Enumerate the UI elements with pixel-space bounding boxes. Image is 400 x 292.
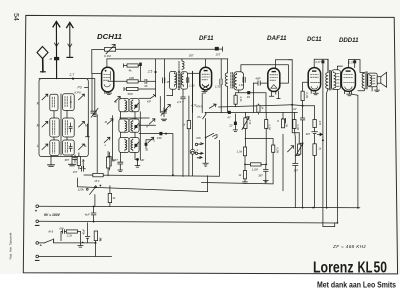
band switch L left xyxy=(37,144,48,150)
svg-text:2,5 T: 2,5 T xyxy=(176,100,185,104)
wire DAF11 anode loop xyxy=(275,60,292,68)
capacitor 430 xyxy=(155,132,173,175)
capacitor 150 b xyxy=(187,78,195,88)
resistor 0,1M right xyxy=(293,112,300,137)
resistor 2,2k xyxy=(66,230,81,238)
svg-text:0,1T: 0,1T xyxy=(348,60,354,64)
wire DCH11 anode to bus xyxy=(107,59,181,67)
capacitor 150 a xyxy=(163,78,172,84)
earth arrow xyxy=(67,23,73,58)
svg-text:M: M xyxy=(37,124,40,128)
battery terminal plus xyxy=(35,205,39,214)
coil L right xyxy=(63,140,75,155)
tube DC11 xyxy=(308,68,320,91)
wire screen dropper xyxy=(155,59,157,97)
band switch K left xyxy=(37,94,48,105)
svg-text:50: 50 xyxy=(374,260,388,277)
svg-text:L: L xyxy=(85,144,87,148)
svg-text:387: 387 xyxy=(65,158,70,162)
battery terminal minus xyxy=(35,220,39,225)
wire pot to grid xyxy=(92,50,102,74)
coil K right (PU) xyxy=(63,94,75,111)
oscillator coil K left xyxy=(115,99,129,112)
svg-text:AV: AV xyxy=(292,107,297,111)
wire det column xyxy=(294,138,296,163)
wire IF1 secondary to DF11 grid xyxy=(188,72,200,74)
resistor 1,5k xyxy=(237,147,247,156)
ground right coil xyxy=(69,155,76,166)
trimmer capacitor antenna xyxy=(88,74,98,174)
svg-text:2,2k: 2,2k xyxy=(66,233,73,237)
output transformer xyxy=(362,72,377,89)
wire coil commons xyxy=(54,94,67,155)
resistor 50k cathode xyxy=(106,152,109,176)
switch osc M left xyxy=(105,119,113,124)
switch wave change xyxy=(165,105,171,111)
grid capacitor 0,1T DDD11 xyxy=(348,60,364,73)
svg-text:DCH11: DCH11 xyxy=(97,32,122,41)
svg-text:40μF: 40μF xyxy=(82,228,86,234)
oscillator coil L right xyxy=(129,138,139,153)
svg-text:0,1M: 0,1M xyxy=(296,124,300,131)
LT minus bus xyxy=(39,221,338,223)
ground PU xyxy=(203,158,208,166)
coil L left xyxy=(50,140,59,156)
tube DC11 pins xyxy=(311,91,318,95)
battery terminal filament minus xyxy=(35,255,39,260)
resistor 50k screen xyxy=(234,93,243,107)
diode detector xyxy=(318,132,324,227)
filament minus bus xyxy=(39,255,112,257)
svg-text:Met dank aan Leo Smits: Met dank aan Leo Smits xyxy=(317,281,396,290)
tube DDD11 xyxy=(341,68,355,92)
svg-text:DAF11: DAF11 xyxy=(267,36,287,42)
svg-text:2,5: 2,5 xyxy=(147,70,153,74)
antenna A xyxy=(37,47,48,72)
capacitor 0W xyxy=(59,226,66,240)
svg-text:1,50: 1,50 xyxy=(215,85,221,89)
oscillator transformer DC11 xyxy=(326,70,341,90)
svg-text:0,3M: 0,3M xyxy=(268,124,272,131)
svg-text:30: 30 xyxy=(145,148,149,152)
contact arrow a xyxy=(198,143,203,145)
svg-text:40P: 40P xyxy=(255,77,260,81)
svg-text:KW: KW xyxy=(196,136,201,140)
band switch M left xyxy=(37,121,48,127)
svg-text:120k: 120k xyxy=(78,188,85,192)
tube DDD11 pins xyxy=(344,91,352,95)
wire DC11 grid left xyxy=(303,82,309,91)
capacitor 15T in AVC line xyxy=(215,47,223,57)
switch Af 6 xyxy=(39,229,96,243)
svg-text:L: L xyxy=(37,144,39,148)
band switch K right with PU labels xyxy=(75,86,89,100)
capacitor 150 DF11 anode xyxy=(215,79,222,89)
capacitor 4uF xyxy=(85,207,96,222)
grid capacitor 0,1T DC11 xyxy=(314,59,328,131)
tube DCH11 xyxy=(102,67,114,92)
aerial arrow xyxy=(53,22,60,79)
wire screen bus xyxy=(205,111,297,113)
ground left coil xyxy=(48,156,55,167)
trimmer capacitor padder xyxy=(161,108,167,121)
svg-text:Lorenz: Lorenz xyxy=(313,260,354,277)
capacitor 30 xyxy=(144,79,155,88)
resistor 1k screen feed xyxy=(257,104,264,114)
battery terminal filament plus xyxy=(36,242,43,248)
svg-text:387: 387 xyxy=(294,168,299,172)
resistor 1,2M xyxy=(244,163,266,172)
resistor 500 xyxy=(124,87,156,96)
resistor 0,5M AF riser xyxy=(245,139,279,155)
potentiometer 120k volume xyxy=(78,185,102,207)
capacitor MD at IF2 foot xyxy=(236,90,266,112)
oscillator coil K right xyxy=(129,99,139,112)
node MF xyxy=(135,158,144,167)
wire IF1 primary foot xyxy=(167,89,173,95)
resistor 100 xyxy=(127,76,144,83)
potentiometer regen xyxy=(295,133,303,156)
tube DCH11 cathode ground xyxy=(105,92,112,95)
svg-text:0,1M: 0,1M xyxy=(305,92,309,99)
capacitor 47 xyxy=(227,111,231,120)
svg-text:30: 30 xyxy=(144,84,148,88)
switch osc K left xyxy=(115,97,121,102)
potentiometer 4,7k volume xyxy=(242,112,252,147)
wire DF11 anode down xyxy=(220,59,222,113)
contact arrow b xyxy=(197,152,203,158)
wire DF11 anode top xyxy=(205,59,207,67)
resistor 0,1M osc grid xyxy=(301,91,309,118)
svg-text:15 k: 15 k xyxy=(94,179,100,183)
svg-text:Rad. Hist. Tijdschrift: Rad. Hist. Tijdschrift xyxy=(9,233,13,260)
resistor 1k AF xyxy=(238,156,247,184)
svg-text:15T: 15T xyxy=(73,170,78,174)
wire grid line xyxy=(108,80,127,82)
switch KP osc xyxy=(139,94,155,103)
capacitor 15T osc xyxy=(113,158,123,171)
wire osc aux vertical xyxy=(159,97,161,113)
band switch M right xyxy=(79,121,88,127)
switch osc L left xyxy=(104,137,110,147)
svg-text:4k: 4k xyxy=(129,69,133,73)
svg-text:15T: 15T xyxy=(113,158,118,162)
wire osc line xyxy=(163,59,165,112)
svg-text:4μF: 4μF xyxy=(85,212,90,216)
svg-text:0,1M: 0,1M xyxy=(104,54,111,58)
svg-text:0,5M: 0,5M xyxy=(275,147,279,154)
svg-text:1,2M: 1,2M xyxy=(252,168,259,172)
tube DF11 xyxy=(200,67,212,90)
svg-text:47kT: 47kT xyxy=(196,105,203,109)
svg-text:KP: KP xyxy=(147,99,151,103)
chassis bus xyxy=(84,140,219,176)
wire antenna input bus xyxy=(39,78,88,80)
wire output stage returns xyxy=(358,87,372,91)
svg-text:Af 6: Af 6 xyxy=(47,229,53,233)
potentiometer 0,1M xyxy=(104,44,116,58)
wire lamp feed xyxy=(192,71,194,112)
wire anode bus DF11 xyxy=(181,58,228,60)
svg-text:+: + xyxy=(82,241,84,245)
dial lamp xyxy=(190,72,198,176)
capacitor after 4k xyxy=(139,63,142,66)
wire osc transformer leads xyxy=(327,59,343,223)
coil M right xyxy=(63,118,75,137)
tuning coil unit box xyxy=(39,79,88,157)
wire 0,3M to det node xyxy=(265,129,267,166)
wire DF11 cathode down xyxy=(201,93,203,112)
svg-text:DC11: DC11 xyxy=(307,37,322,43)
wire IF2 to DAF11 grid xyxy=(241,65,289,83)
svg-text:0W: 0W xyxy=(59,226,64,230)
capacitor 387 AF xyxy=(258,164,268,183)
wire grid2 xyxy=(140,66,142,81)
resistor 1k bias left xyxy=(108,186,116,207)
svg-text:1,50: 1,50 xyxy=(239,83,245,87)
svg-text:1,50: 1,50 xyxy=(189,84,195,88)
tube DF11 cathode ground xyxy=(202,85,209,93)
capacitor 30 osc xyxy=(145,143,149,152)
node 2,T junction xyxy=(69,73,76,80)
svg-text:KL: KL xyxy=(358,260,373,277)
resistor 1k below coil box xyxy=(77,153,85,169)
IF transformer T2 primary xyxy=(225,59,232,113)
band switch L right xyxy=(79,144,87,150)
svg-text:20: 20 xyxy=(228,123,233,127)
coil K left xyxy=(50,94,58,111)
wire DDD11 anode vertical xyxy=(352,94,358,208)
capacitor M in aerial lead xyxy=(50,57,59,61)
loudspeaker xyxy=(375,72,387,91)
resistor 15k xyxy=(93,173,103,182)
resistor 1k osc xyxy=(108,153,116,171)
IF transformer T1 xyxy=(170,54,194,90)
oscillator coil M left xyxy=(119,119,129,132)
wire AVC top line xyxy=(92,48,216,50)
resistor 1k output bias xyxy=(313,144,322,208)
IF transformer T2 secondary unit xyxy=(234,72,245,90)
resistor 0,3M xyxy=(265,112,272,131)
electrolytic 40uF xyxy=(82,223,90,245)
svg-text:4,7k: 4,7k xyxy=(248,119,252,125)
svg-text:MF: MF xyxy=(140,158,144,162)
wire DAF11 aux xyxy=(288,60,299,133)
wire volume line xyxy=(77,176,207,192)
svg-text:+: + xyxy=(35,209,38,214)
resistor filament dropper xyxy=(94,231,102,242)
resistor 1M xyxy=(281,112,288,190)
resistor 4k xyxy=(124,64,141,73)
wire osc interconnect xyxy=(113,112,156,162)
capacitor 30T det xyxy=(306,128,318,144)
tube DAF11 xyxy=(268,68,280,91)
svg-text:47: 47 xyxy=(227,115,231,119)
capacitor 387 det xyxy=(293,164,299,208)
wire filament line xyxy=(95,231,97,256)
ground filament xyxy=(78,232,83,248)
svg-text:40: 40 xyxy=(247,95,251,99)
svg-text:0,1T: 0,1T xyxy=(315,60,321,64)
svg-text:100: 100 xyxy=(129,76,134,80)
oscillator coil L left xyxy=(119,138,129,153)
capacitor 2,5T xyxy=(176,89,185,176)
capacitor 40P xyxy=(253,77,267,113)
switch KW xyxy=(196,133,217,140)
terminal PU b xyxy=(195,152,197,154)
svg-text:470: 470 xyxy=(318,121,322,126)
wire U jog return xyxy=(323,223,335,227)
svg-text:430: 430 xyxy=(157,136,162,140)
node 2,5 screen junction xyxy=(147,70,157,74)
svg-text:K: K xyxy=(277,119,279,123)
capacitor blocking DC11 xyxy=(300,118,304,208)
AF return bus xyxy=(202,152,274,184)
svg-text:DF11: DF11 xyxy=(199,36,214,42)
svg-text:9V = 100V: 9V = 100V xyxy=(44,213,61,217)
capacitor 387 below coil box xyxy=(65,155,78,162)
svg-text:54: 54 xyxy=(12,13,19,21)
svg-text:30T: 30T xyxy=(306,132,311,136)
HT plus bus xyxy=(39,206,360,208)
svg-text:K,PU: K,PU xyxy=(75,91,83,95)
svg-text:500: 500 xyxy=(128,92,133,96)
coil M left xyxy=(50,118,59,137)
resistor 470 xyxy=(302,105,322,128)
switch 47kT xyxy=(196,104,292,109)
svg-text:387: 387 xyxy=(258,173,263,177)
svg-text:DDD11: DDD11 xyxy=(339,38,359,44)
svg-text:15T: 15T xyxy=(216,53,221,57)
svg-text:0,1k: 0,1k xyxy=(239,97,243,103)
svg-text:30T: 30T xyxy=(189,54,194,58)
svg-text:ZF = 468 KHz: ZF = 468 KHz xyxy=(332,244,366,249)
switch PU input xyxy=(197,113,206,159)
capacitor 15T volume xyxy=(73,160,86,174)
capacitor 20 xyxy=(228,114,237,131)
svg-text:1,5k: 1,5k xyxy=(237,149,243,153)
switch osc L right xyxy=(148,137,156,142)
svg-text:PU: PU xyxy=(78,86,83,90)
tube DAF11 pins xyxy=(269,92,280,99)
resistor 1k lamp xyxy=(182,96,190,175)
wire stub K,PU return xyxy=(86,124,90,137)
oscillator coil M right xyxy=(129,119,139,132)
switch M det xyxy=(288,146,294,152)
terminal PU a xyxy=(195,143,197,145)
switch osc M right xyxy=(146,119,155,129)
